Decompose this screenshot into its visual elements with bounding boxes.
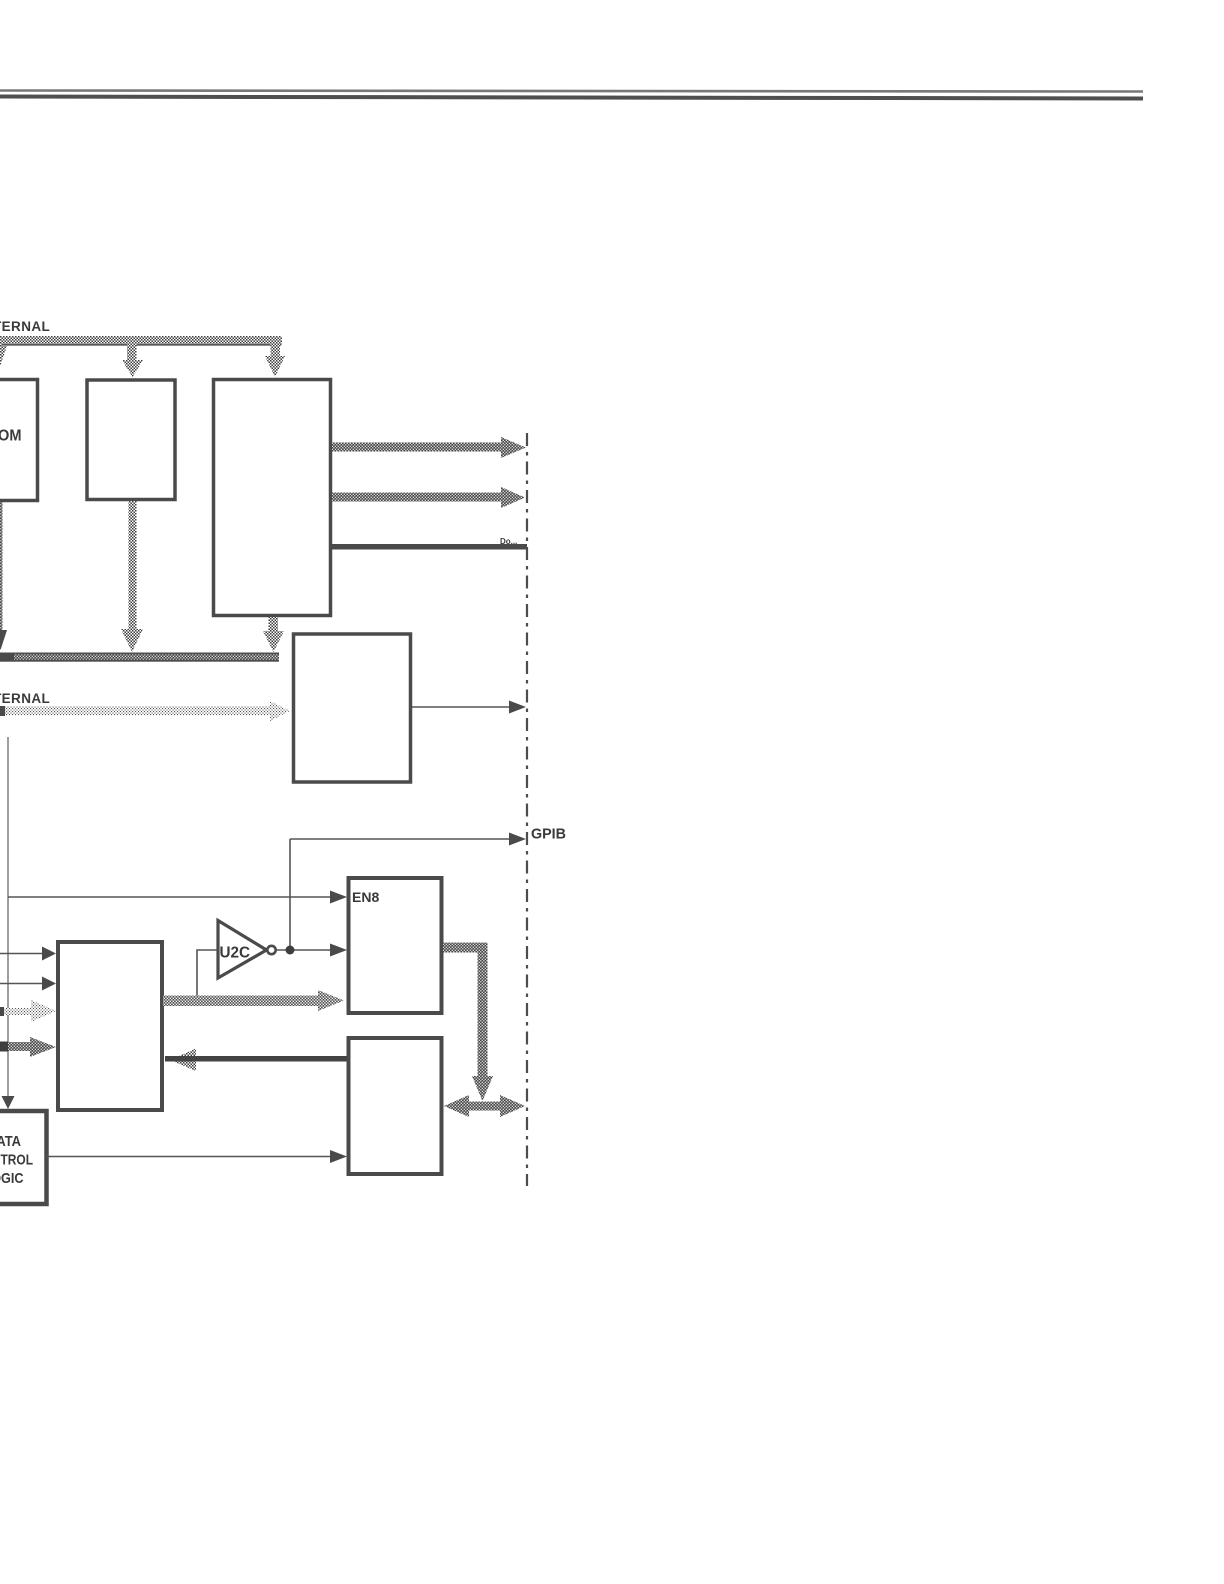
wire light hatched bus arrow into block U4 [0, 707, 272, 716]
wire branch to EN8 [8, 896, 332, 898]
svg-text:ROM: ROM [0, 428, 22, 445]
arrowhead pointing left on thick line (hatched, under line) [170, 1049, 196, 1072]
wire thin arrow from U4 to boundary [412, 706, 511, 708]
wire internal-bus-top [0, 336, 282, 345]
boundary dash-dot line [526, 433, 528, 1186]
wire double-headed hatched arrow to boundary [466, 1102, 503, 1111]
svg-text:TERNAL: TERNAL [0, 319, 50, 334]
wire U2C input [197, 950, 218, 999]
arrowhead into EN8 [330, 944, 347, 957]
svg-text:GPIB: GPIB [531, 826, 566, 843]
svg-text:EN8: EN8 [352, 889, 379, 905]
wire U2C output to node [276, 949, 332, 951]
wire solid line to boundary [330, 544, 527, 550]
arrowhead into bottom bus (clipped) [0, 630, 7, 650]
wire thick dark line lower-block to CPU [165, 1056, 348, 1062]
wire GPIB net [289, 839, 291, 950]
block ROM (clipped at left edge) [0, 380, 38, 501]
arrowhead branch down into ROM (clipped at left edge) [0, 346, 7, 368]
wire DATA-logic to lower block [47, 1156, 333, 1158]
arrowhead into U3 top [265, 356, 285, 377]
svg-text:CONTROL: CONTROL [0, 1152, 33, 1169]
block lower (GPIB transceiver) [349, 1038, 442, 1174]
wire bus corner down into block U3 [271, 344, 281, 356]
svg-text:LOGIC: LOGIC [0, 1170, 24, 1187]
wire down arrow from RAM bottom [129, 501, 137, 629]
wire light hatched arrow into CPU [0, 1008, 33, 1015]
wire down arrow from U3 bottom [269, 617, 279, 632]
arrowhead into DATA CONTROL LOGIC box [2, 1096, 15, 1109]
op-amp U2C inverter [218, 921, 267, 979]
svg-text:DATA: DATA [0, 1133, 21, 1150]
svg-text:TERNAL: TERNAL [0, 691, 50, 706]
wire dark hatched arrow into CPU [0, 1042, 32, 1051]
wire left vertical bus from ROM bottom (clipped) [0, 502, 3, 630]
arrowhead branch down into RAM block [127, 344, 137, 360]
block CPU (mid-left) [58, 942, 162, 1110]
block U3 (tall) [214, 380, 331, 616]
wire thin arrow 1 into CPU [0, 953, 44, 955]
wire hatched arrow CPU to EN8 [163, 996, 320, 1007]
wire bottom dark bus [0, 653, 279, 662]
block RAM [87, 380, 175, 500]
svg-text:U2C: U2C [220, 945, 251, 962]
wire thin arrow 2 into CPU [0, 983, 44, 985]
wire long vertical control line [7, 737, 9, 1097]
block EN8 [349, 878, 442, 1013]
block U4 [294, 634, 411, 782]
block DATA CONTROL LOGIC (clipped) [0, 1111, 47, 1204]
wire EN8 exit thick hatched path [443, 943, 488, 953]
wire hatched arrow A to GPIB boundary [332, 443, 504, 452]
node junction dot [286, 946, 295, 955]
wire hatched arrow B to GPIB boundary [332, 493, 504, 502]
top double rule [0, 91, 1143, 99]
